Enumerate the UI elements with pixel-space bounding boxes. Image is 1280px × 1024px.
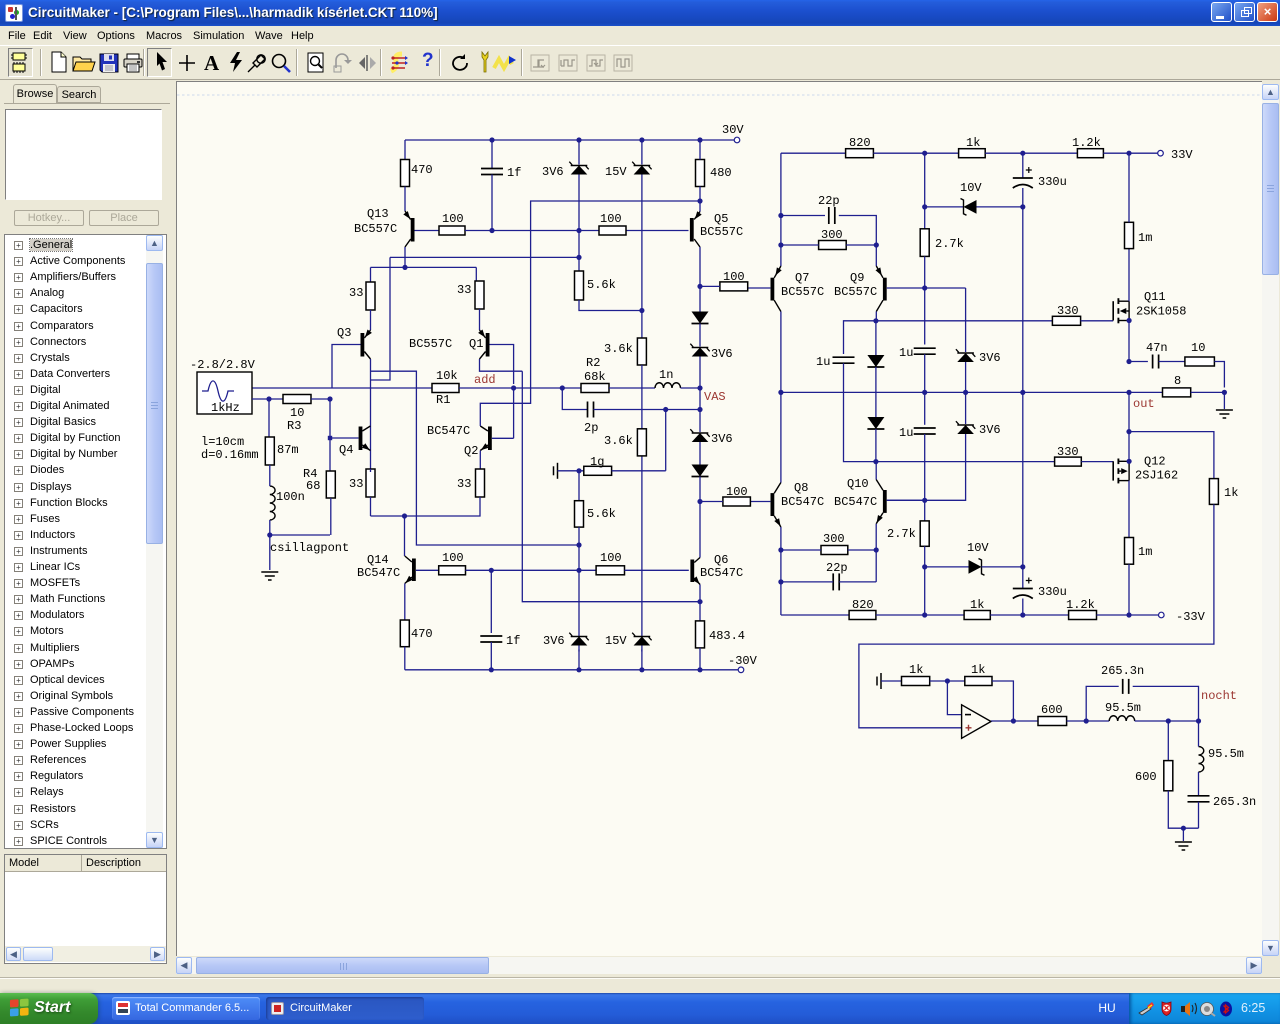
wire (579, 300, 642, 311)
svg-text:10: 10 (1191, 341, 1205, 355)
wire (404, 187, 406, 212)
resistor 1.2k (bottom) (1069, 611, 1097, 620)
wire (925, 566, 969, 568)
wire (329, 399, 331, 471)
wire (479, 451, 481, 470)
wire (371, 497, 481, 516)
svg-text:330u: 330u (1038, 585, 1067, 599)
capacitor 1f (bottom) (480, 635, 502, 637)
svg-text:Q14: Q14 (367, 553, 389, 567)
wire (1128, 392, 1130, 431)
wire (992, 681, 1013, 721)
svg-text:1f: 1f (507, 166, 521, 180)
wire (699, 648, 701, 670)
capacitor 1u (left) (833, 356, 855, 358)
zener 3V6 (top) (569, 162, 572, 165)
resistor R4 68 (326, 471, 335, 498)
wire Q9 collector (875, 312, 877, 321)
wire Q3 base (332, 345, 361, 389)
wire (594, 409, 701, 411)
wire (924, 256, 926, 344)
transistor Q8 BC547C (771, 493, 775, 516)
resistor 33 (Q1) (475, 281, 484, 309)
wire base bus Q14-Q6 (466, 569, 597, 571)
wire (924, 354, 926, 425)
wire (780, 153, 782, 266)
svg-text:1u: 1u (816, 355, 830, 369)
wire (578, 140, 580, 165)
wire (665, 410, 667, 471)
zener 15V (top) (632, 162, 635, 165)
wire Q8 emitter chain (780, 527, 782, 615)
wire (924, 434, 926, 500)
wire (875, 429, 877, 462)
svg-text:Q7: Q7 (795, 271, 809, 285)
wire Q13 base (415, 230, 440, 232)
diode (lower bias) (867, 417, 884, 429)
wire (875, 245, 877, 266)
wire feedback run (859, 504, 1214, 727)
wire Q10 base (887, 499, 925, 501)
svg-text:R2: R2 (586, 356, 600, 370)
wire (1223, 392, 1225, 409)
resistor 1k (top) (959, 149, 986, 158)
svg-text:480: 480 (710, 166, 732, 180)
svg-text:300: 300 (823, 532, 845, 546)
wire (390, 256, 579, 258)
resistor 33 (Q3) (366, 282, 375, 310)
svg-text:add: add (474, 373, 496, 387)
wire Q9 base (887, 287, 966, 289)
wire (700, 501, 723, 503)
resistor 100 (Q6 base) (596, 566, 624, 575)
svg-text:15V: 15V (605, 165, 627, 179)
svg-text:87m: 87m (277, 443, 299, 457)
wire (873, 152, 958, 154)
ground (bottom) (1175, 841, 1192, 843)
transistor Q3 BC557C (364, 330, 370, 338)
wire (781, 549, 876, 551)
wire (370, 310, 372, 330)
wire (924, 546, 926, 615)
wire (1182, 828, 1184, 841)
svg-text:95.5m: 95.5m (1208, 747, 1244, 761)
33V rail (781, 152, 846, 154)
node -33V terminal (1159, 612, 1165, 618)
capacitor 1u (lower) (914, 427, 936, 429)
wire (781, 581, 876, 583)
svg-text:-33V: -33V (1176, 610, 1206, 624)
svg-text:BC547C: BC547C (700, 566, 743, 580)
-33V rail (781, 614, 849, 616)
svg-text:1f: 1f (506, 634, 520, 648)
horizontal scrollbar (176, 957, 1262, 974)
svg-text:Q1: Q1 (469, 337, 483, 351)
wire (965, 368, 967, 424)
wire (700, 285, 720, 287)
resistor 820 (bottom) (849, 611, 876, 620)
wire (491, 175, 493, 231)
svg-text:100n: 100n (276, 490, 305, 504)
zener 15V (bottom) (632, 633, 635, 636)
wire (404, 516, 406, 556)
wire (1022, 599, 1024, 616)
svg-text:820: 820 (852, 598, 874, 612)
capacitor 1u (upper) (914, 347, 936, 349)
capacitor 2p (587, 402, 589, 418)
wire (269, 535, 271, 570)
svg-text:BC557C: BC557C (409, 337, 452, 351)
zener 3V6 (bottom) (569, 633, 572, 636)
svg-text:1k: 1k (971, 663, 985, 677)
svg-text:1k: 1k (909, 663, 923, 677)
resistor 1m (top) (1125, 222, 1134, 248)
resistor 1g (584, 466, 612, 475)
wire (578, 471, 580, 501)
svg-text:22p: 22p (818, 194, 840, 208)
wire (1198, 721, 1200, 796)
svg-text:5.6k: 5.6k (587, 278, 616, 292)
svg-text:600: 600 (1135, 770, 1157, 784)
svg-text:483.4: 483.4 (709, 629, 745, 643)
wire (699, 585, 701, 602)
svg-text:1k: 1k (966, 136, 980, 150)
resistor 330 (Q11 gate) (1052, 316, 1080, 325)
transistor Q9 BC557C (876, 266, 883, 278)
svg-text:3V6: 3V6 (711, 347, 733, 361)
wire (1129, 432, 1214, 479)
wire (612, 470, 666, 472)
wire (1129, 361, 1148, 363)
resistor 1.2k (top) (1077, 149, 1103, 158)
wire Q4 base (332, 437, 359, 439)
svg-text:470: 470 (411, 627, 433, 641)
wire (491, 140, 493, 168)
svg-text:Q4: Q4 (339, 443, 353, 457)
wire Q7 base (748, 287, 771, 289)
wire (459, 387, 581, 389)
svg-text:22p: 22p (826, 561, 848, 575)
wire (578, 650, 580, 670)
wire (681, 387, 701, 389)
resistor 100 (Q7 base) (720, 282, 748, 291)
source V1 -2.8/2.8V 1kHz (197, 372, 252, 414)
menu bar (0, 26, 1280, 45)
resistor 600 (series) (1038, 717, 1067, 726)
ground (1g) (557, 463, 559, 479)
svg-text:Q2: Q2 (464, 444, 478, 458)
ground (feedback) (880, 673, 882, 689)
wire Q11 drain (1128, 249, 1130, 302)
wire input line (252, 387, 432, 389)
wire Q2 collector to Q5 emitter (480, 201, 700, 426)
wire (641, 650, 643, 670)
wire (1168, 791, 1198, 828)
wire (513, 388, 515, 438)
svg-text:5.6k: 5.6k (587, 507, 616, 521)
svg-text:10V: 10V (960, 181, 982, 195)
svg-text:1kHz: 1kHz (211, 401, 240, 415)
wire (1214, 362, 1224, 388)
svg-text:d=0.16mm: d=0.16mm (201, 448, 259, 462)
wire (1022, 392, 1024, 588)
wire (925, 206, 964, 208)
wire (641, 456, 643, 636)
svg-text:330: 330 (1057, 304, 1079, 318)
zener 3V6 (VAS lower) (690, 429, 693, 432)
resistor 820 (top) (846, 149, 874, 158)
wire (475, 267, 477, 281)
resistor 2.7k (bottom) (920, 521, 929, 546)
wire (404, 647, 406, 670)
svg-text:3V6: 3V6 (543, 634, 565, 648)
wire (781, 215, 825, 217)
svg-text:1k: 1k (1224, 486, 1238, 500)
svg-text:3V6: 3V6 (979, 351, 1001, 365)
svg-text:265.3n: 265.3n (1213, 795, 1256, 809)
svg-text:R3: R3 (287, 419, 301, 433)
svg-text:2p: 2p (584, 421, 598, 435)
svg-text:-30V: -30V (728, 654, 758, 668)
svg-text:BC547C: BC547C (781, 495, 824, 509)
svg-text:2.7k: 2.7k (935, 237, 964, 251)
wire (370, 267, 372, 282)
svg-text:33: 33 (349, 286, 363, 300)
resistor 10 (1185, 357, 1215, 366)
resistor 483.4 (696, 621, 705, 648)
svg-text:2.7k: 2.7k (887, 527, 916, 541)
transistor Q2 BC547C (488, 427, 492, 451)
wire (887, 440, 966, 500)
wire (844, 363, 876, 461)
wire Q11 gate line (876, 320, 1053, 322)
wire (924, 500, 926, 521)
wire (1135, 720, 1199, 722)
svg-text:33V: 33V (1171, 148, 1193, 162)
resistor 600 (shunt) (1164, 761, 1173, 791)
node +30V terminal (734, 137, 740, 143)
wire (404, 140, 406, 160)
resistor 1k (right) (1209, 479, 1218, 505)
wire (490, 642, 492, 670)
wire (1081, 320, 1114, 322)
svg-text:VAS: VAS (704, 390, 726, 404)
svg-text:47n: 47n (1146, 341, 1168, 355)
-30V rail (405, 669, 741, 671)
capacitor 47n (1152, 355, 1154, 369)
svg-text:-2.8/2.8V: -2.8/2.8V (190, 358, 256, 372)
svg-text:2SJ162: 2SJ162 (1135, 469, 1178, 483)
svg-text:nocht: nocht (1201, 689, 1237, 703)
resistor 1k (fb in) (902, 677, 930, 686)
wire (1128, 153, 1130, 222)
resistor 1m (bottom) (1125, 538, 1134, 565)
resistor 33 (Q4) (366, 469, 375, 497)
svg-text:3V6: 3V6 (542, 165, 564, 179)
capacitor 22p (bottom) (832, 573, 834, 590)
transistor Q6 BC547C (694, 558, 700, 563)
wire (578, 527, 580, 636)
wire (930, 680, 965, 682)
svg-text:100: 100 (600, 551, 622, 565)
wire collector chain (522, 371, 700, 602)
wire Q2 base (492, 437, 514, 439)
resistor 480 (696, 160, 705, 187)
wire Q7 collector (780, 312, 782, 393)
wire (1097, 614, 1159, 616)
wire Q13 collector (404, 247, 406, 267)
wire (490, 570, 492, 633)
wire (699, 286, 701, 346)
wire (268, 399, 270, 437)
wire (985, 152, 1077, 154)
wire (881, 680, 902, 682)
svg-text:3.6k: 3.6k (604, 434, 633, 448)
inductor 1n (655, 383, 681, 388)
resistor 5.6k (lower) (575, 501, 584, 527)
wire Q8 base (750, 501, 770, 503)
resistor R1 10k (432, 384, 459, 393)
wire base bus Q13-Q5 (465, 230, 689, 232)
resistor 3.6k (lower) (637, 429, 646, 456)
resistor 3.6k (upper) (637, 338, 646, 365)
svg-text:Q13: Q13 (367, 207, 389, 221)
inductor 100n (270, 486, 275, 520)
svg-text:30V: 30V (722, 123, 744, 137)
wire (875, 321, 877, 417)
svg-text:95.5m: 95.5m (1105, 701, 1141, 715)
resistor 100 (Q8 base) (723, 497, 751, 506)
svg-text:1u: 1u (899, 346, 913, 360)
svg-text:Q3: Q3 (337, 326, 351, 340)
svg-text:R1: R1 (436, 393, 450, 407)
svg-text:Q12: Q12 (1144, 455, 1166, 469)
svg-text:Q10: Q10 (847, 477, 869, 491)
svg-text:470: 470 (411, 163, 433, 177)
svg-text:BC557C: BC557C (781, 285, 824, 299)
inductor 95.5m (horiz) (1109, 716, 1135, 721)
wire (311, 398, 330, 400)
svg-text:2SK1058: 2SK1058 (1136, 305, 1186, 319)
wire (1167, 721, 1169, 761)
wire Q10 collector (875, 462, 877, 480)
wire Q5 collector (699, 247, 701, 286)
wire (699, 363, 701, 410)
resistor 470 (bottom) (400, 620, 409, 647)
wire (876, 614, 964, 616)
resistor 8 (1163, 388, 1191, 397)
wire (578, 181, 580, 272)
svg-text:BC557C: BC557C (700, 225, 743, 239)
wire (699, 201, 701, 212)
svg-text:3V6: 3V6 (979, 423, 1001, 437)
wire (1159, 361, 1185, 363)
svg-text:33: 33 (457, 283, 471, 297)
wire (330, 498, 332, 535)
resistor 100 (Q14 base) (439, 566, 466, 575)
svg-text:68: 68 (306, 479, 320, 493)
svg-text:100: 100 (726, 485, 748, 499)
resistor 470 (top) (401, 160, 410, 187)
svg-text:330: 330 (1057, 445, 1079, 459)
capacitor 330u (bottom) (1013, 588, 1033, 590)
capacitor 1f (top) (481, 168, 503, 170)
wire Q8 collector (780, 392, 782, 482)
inductor 95.5m (vert) (1199, 747, 1204, 773)
svg-text:BC557C: BC557C (834, 285, 877, 299)
svg-text:Q5: Q5 (714, 212, 728, 226)
svg-text:10k: 10k (436, 369, 458, 383)
wire (990, 614, 1068, 616)
wire Q14 base (416, 569, 439, 571)
resistor 300 (bottom) (821, 546, 848, 555)
wire csillagpont node (270, 534, 330, 536)
resistor R3 10 (283, 395, 311, 404)
wire Q3/Q4 emitter chain (370, 359, 372, 472)
ground (261, 571, 278, 573)
wire (252, 398, 283, 400)
wire Q12 source (1128, 481, 1130, 538)
svg-text:Q8: Q8 (794, 481, 808, 495)
svg-text:1m: 1m (1138, 545, 1152, 559)
svg-text:1k: 1k (970, 598, 984, 612)
svg-text:BC557C: BC557C (354, 222, 397, 236)
node junction (328, 436, 332, 440)
wire (844, 321, 876, 354)
vertical scrollbar (1262, 84, 1279, 956)
resistor 300 (top) (819, 241, 847, 250)
svg-text:BC547C: BC547C (834, 495, 877, 509)
wire Q1 collector (480, 359, 523, 371)
resistor 33 (Q2) (476, 469, 485, 497)
svg-text:1g: 1g (590, 455, 604, 469)
svg-text:300: 300 (821, 228, 843, 242)
wire (641, 365, 643, 429)
svg-text:100: 100 (442, 551, 464, 565)
wire (370, 469, 372, 516)
wire Q11 source (1128, 321, 1130, 362)
svg-text:100: 100 (600, 212, 622, 226)
wire (404, 584, 406, 621)
wire (641, 181, 643, 339)
wire (1128, 564, 1130, 615)
resistor 100 (Q13 base) (439, 226, 465, 235)
wire (1103, 152, 1157, 154)
diode (upper bias) (867, 355, 884, 367)
transistor Q1 BC557C (480, 330, 486, 338)
svg-text:1.2k: 1.2k (1072, 136, 1101, 150)
wire (479, 309, 481, 330)
wire output node line (781, 391, 1163, 393)
svg-text:3V6: 3V6 (711, 432, 733, 446)
svg-text:15V: 15V (605, 634, 627, 648)
wire (982, 566, 1023, 568)
svg-text:33: 33 (349, 477, 363, 491)
wire (924, 153, 926, 229)
page boundary guide (177, 94, 1261, 96)
wire (699, 502, 701, 558)
resistor R2 68k (581, 384, 609, 393)
wire (991, 720, 1038, 722)
wire (371, 371, 580, 545)
ground (output) (1216, 409, 1233, 411)
resistor 100 (Q5 base) (599, 226, 626, 235)
resistor 5.6k (upper) (575, 271, 584, 300)
svg-text:820: 820 (849, 136, 871, 150)
wire (699, 477, 701, 502)
wire (625, 569, 689, 571)
svg-text:3.6k: 3.6k (604, 342, 633, 356)
